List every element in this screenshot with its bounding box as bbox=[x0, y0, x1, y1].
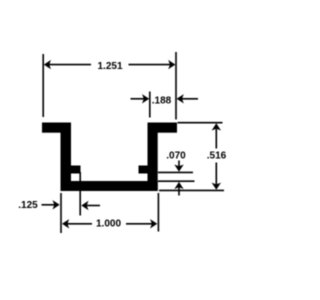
dimension .070 up arrow stem bbox=[178, 187, 180, 196]
extension line right shared by 1.251 and .188 bbox=[175, 52, 177, 120]
svg-text:1.251: 1.251 bbox=[97, 61, 122, 72]
dimension .188 left stem bbox=[131, 98, 145, 100]
channel profile: right inner tab bbox=[139, 166, 148, 174]
dimension 1.000 left arrow bbox=[62, 219, 69, 228]
svg-text:.516: .516 bbox=[207, 151, 227, 162]
svg-text:.125: .125 bbox=[18, 200, 38, 211]
extension line slot bottom for .070 bbox=[158, 180, 195, 182]
extension line slot top for .070 bbox=[158, 171, 193, 173]
dimension .516 upper stem bbox=[215, 129, 217, 149]
dimension 1.251 right stem bbox=[129, 64, 172, 66]
dimension 1.000 left stem bbox=[67, 223, 92, 225]
dimension .188 right stem bbox=[182, 98, 198, 100]
dimension .125 opposing stem bbox=[86, 205, 100, 207]
dimension .125 stem bbox=[42, 204, 55, 206]
channel profile: bottom web bbox=[61, 181, 158, 191]
extension line at web right end (x=158) bbox=[157, 193, 159, 232]
channel profile: right wall bbox=[148, 123, 158, 192]
channel profile: left wall bbox=[61, 123, 72, 192]
svg-text:1.000: 1.000 bbox=[96, 218, 121, 229]
extension line of .188 at inner wall face bbox=[149, 92, 151, 118]
dimension 1.000 right arrow bbox=[150, 219, 157, 228]
extension line top of .516 bbox=[178, 122, 223, 124]
svg-text:.070: .070 bbox=[166, 151, 186, 162]
dimension 1.251 right arrow bbox=[168, 60, 175, 69]
dimension .070 up arrow bbox=[174, 182, 183, 189]
dimension 1.000 right stem bbox=[126, 223, 152, 225]
dimension .125 opposing left-pointing arrow bbox=[81, 201, 88, 210]
channel profile: top-left flange bbox=[42, 123, 71, 133]
extension line at tab inner face (x=80) bbox=[79, 172, 81, 216]
extension line left of 1.251 bbox=[42, 54, 44, 117]
extension line at wall outer face (x=61) bbox=[60, 193, 62, 233]
dimension .516 up arrow bbox=[212, 123, 221, 130]
dimension .516 down arrow bbox=[212, 183, 221, 190]
svg-text:.188: .188 bbox=[152, 95, 172, 106]
channel profile: left inner tab bbox=[71, 166, 81, 174]
dimension .188 left arrow bbox=[142, 94, 149, 103]
extension line bottom of .516 bbox=[159, 189, 224, 191]
dimension .188 right arrow bbox=[177, 94, 184, 103]
dimension 1.251 left arrow bbox=[44, 60, 51, 69]
dimension .070 down arrow stem bbox=[178, 161, 180, 167]
dimension .125 right-pointing arrow bbox=[53, 200, 60, 209]
dimension 1.251 left stem bbox=[49, 64, 92, 66]
channel profile: top-right flange bbox=[148, 123, 178, 133]
dimension .516 lower stem bbox=[215, 163, 217, 185]
dimension .070 down arrow bbox=[174, 165, 183, 172]
